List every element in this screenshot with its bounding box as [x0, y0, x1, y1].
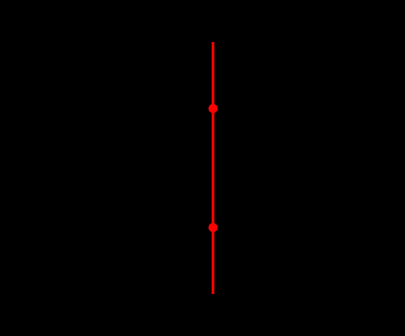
junction node 1 [208, 104, 217, 113]
wire segment 3 [212, 228, 215, 295]
wire segment 2 [212, 109, 215, 228]
wire segment 1 [212, 42, 215, 109]
junction node 2 [208, 223, 217, 232]
